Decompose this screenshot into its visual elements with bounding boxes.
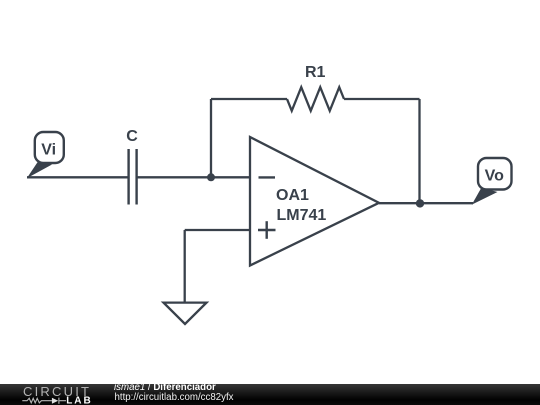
node junction dot right <box>416 199 424 207</box>
CircuitLab logo <box>0 384 100 405</box>
wire op-amp plus input <box>185 229 250 231</box>
op-amp OA1 non-inverting input plus symbol <box>258 221 276 239</box>
node Vo flag box <box>478 158 512 190</box>
svg-text:OA1: OA1 <box>276 187 309 204</box>
svg-text:C: C <box>126 128 138 145</box>
svg-text:Vo: Vo <box>485 167 504 184</box>
node junction dot left <box>207 173 215 181</box>
footer text <box>113 382 115 384</box>
op-amp OA1 inverting input minus symbol <box>259 176 276 178</box>
svg-text:LAB: LAB <box>66 396 91 405</box>
svg-text:R1: R1 <box>305 64 326 81</box>
wire to ground <box>184 230 186 302</box>
wire feedback right vertical <box>418 99 420 203</box>
node Vo flag tail <box>472 188 498 205</box>
node Vi flag box <box>35 132 64 163</box>
wire op-amp output <box>379 202 473 204</box>
footer bar <box>0 384 540 405</box>
resistor R1 <box>287 87 344 111</box>
wire feedback top right segment <box>344 98 420 100</box>
wire capacitor to op-amp minus input <box>138 176 251 178</box>
capacitor C <box>129 149 137 205</box>
op-amp OA1 LM741 triangle body <box>250 137 379 266</box>
svg-text:LM741: LM741 <box>277 207 327 224</box>
node Vi flag tail <box>27 160 52 178</box>
ground <box>164 303 207 324</box>
wire Vi to capacitor <box>27 176 128 178</box>
wire feedback top left segment <box>211 98 287 100</box>
wire feedback left vertical <box>210 99 212 177</box>
svg-text:Vi: Vi <box>41 142 56 159</box>
